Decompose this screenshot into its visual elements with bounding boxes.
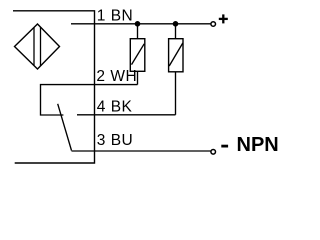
wire 4 BK bbox=[77, 114, 176, 116]
junction dot on 1 BN at load L2 bbox=[173, 21, 179, 27]
load L1 diagonal bbox=[132, 44, 145, 65]
load L2 bbox=[169, 39, 183, 72]
sensor body outline bbox=[13, 11, 95, 163]
junction dot on 1 BN at load L1 bbox=[135, 21, 141, 27]
load L2 bottom lead bbox=[175, 72, 177, 115]
svg-text:NPN: NPN bbox=[237, 134, 279, 156]
load L2 diagonal bbox=[169, 43, 183, 66]
load L1 bbox=[130, 39, 145, 72]
svg-text:4 BK: 4 BK bbox=[97, 98, 133, 115]
svg-text:2 WH: 2 WH bbox=[96, 68, 137, 85]
load L1 bottom lead bbox=[137, 71, 139, 84]
svg-text:3 BU: 3 BU bbox=[97, 132, 133, 149]
sensor symbol inner line left bbox=[33, 28, 35, 66]
proximity sensor symbol (diamond) bbox=[15, 24, 60, 69]
terminal circle plus bbox=[211, 22, 216, 27]
wire 1 BN bbox=[71, 23, 211, 25]
load L2 top lead bbox=[175, 24, 177, 39]
plus sign bbox=[219, 14, 228, 23]
wire 2 WH bbox=[41, 85, 138, 115]
terminal circle minus bbox=[211, 150, 216, 155]
minus sign bbox=[221, 145, 228, 148]
svg-text:1 BN: 1 BN bbox=[97, 7, 133, 24]
load L1 top lead bbox=[137, 24, 139, 39]
sensor symbol inner line right bbox=[40, 27, 42, 66]
wire 3 BU bbox=[72, 150, 211, 152]
switch blade bbox=[58, 104, 72, 151]
